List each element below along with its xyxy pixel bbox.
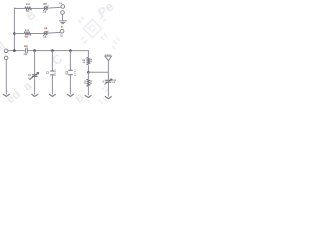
wire: row2 left segment [14,33,24,35]
wire: top row left segment [14,7,25,9]
label phones terminal [59,3,60,4]
terminal circle phones top [61,5,65,9]
capacitor C5 [104,79,112,85]
label antenna above [105,54,106,56]
label C2 below [27,78,30,79]
input terminal circle bottom [4,56,8,60]
wire: R4 lower [87,87,89,95]
wire: branch1 upper [34,51,36,75]
ground arrow far right [105,96,112,98]
label D1 below [43,11,44,13]
watermark logo diamond chip [78,16,107,43]
ground arrow branch3 [67,94,74,96]
labels [24,3,116,84]
wire: below C5 [107,82,109,96]
watermark text [0,0,116,106]
diode D2 (row 2, circle with diagonal) [43,31,48,36]
label C5 right [112,79,115,81]
wire: branch3 upper [69,51,71,70]
wire: R3 to junction [87,65,89,72]
node: branch3 junction [69,49,72,52]
ground arrow branch2 [49,94,56,96]
label D2 above [45,27,46,29]
capacitor C4 [68,70,73,75]
wire: top row mid segment [31,7,44,9]
terminal circle row 2 [60,29,64,33]
ground arrow branch1 [32,94,39,96]
node: branch1 junction [33,49,36,52]
terminal circle phones bottom [61,11,65,15]
resistor R2 (row 2) [24,32,31,35]
wire: bus corner down right side [87,50,89,57]
wire: branch3 lower [69,75,71,94]
input terminal circle top [4,49,8,53]
label C2 left [28,74,29,76]
label C3 right column [55,69,56,70]
wire: junction down [87,72,89,79]
ground arrow right resistor [85,95,92,97]
antenna [105,56,112,72]
label R1 below [25,10,28,12]
variable capacitor C2 [29,72,38,79]
node: branch2 junction [51,49,54,52]
capacitor C1 (series, in bus) [25,48,27,54]
label C4 right column [74,69,75,70]
node: row2 junction [13,32,16,35]
node: junction right [87,71,90,74]
wire: branch1 lower [34,77,36,95]
capacitor C3 [50,71,54,75]
ground arrow input [3,94,10,96]
label R3 right [89,59,90,61]
wire: input to bus [8,50,15,52]
label D1 above [42,3,45,5]
label R4 left [84,80,85,82]
wire: input lower terminal down [5,60,7,95]
node: bus-left junction [13,49,16,52]
resistor R4 (vertical) [87,79,90,86]
wire: branch2 upper [51,51,53,71]
label D2 below [44,36,45,38]
wire: branch2 lower [51,75,53,94]
label R1 above [26,3,27,5]
label R2 below [24,36,27,38]
label C5 left [103,81,104,83]
label terminal row2 dot [61,26,63,27]
ground [59,21,67,24]
wire: main left vertical [13,8,15,51]
wire: antenna branch lower [107,72,109,80]
wire: row2 mid segment [30,33,44,35]
resistor R1 (top row) [25,7,32,10]
watermark hatch marks [99,37,120,104]
label C4 left [66,71,68,74]
diode D1 (top row, circle with diagonal) [43,6,48,11]
wire: top row right segment [48,6,61,9]
label terminal row2 below [60,34,61,35]
wire: terminal to ground [62,14,64,20]
wire: row2 right segment [48,31,60,34]
label C1 above [23,45,26,47]
label C3 left [46,71,48,73]
label C1 below [23,53,26,55]
label R2 above [25,30,26,32]
resistor R3 (vertical) [87,57,90,64]
label R4 right [89,80,92,82]
wire: bottom horizontal right [88,71,108,73]
label R3 left [82,59,83,61]
wire: bus left [14,50,24,52]
wire: bus right [27,50,88,52]
